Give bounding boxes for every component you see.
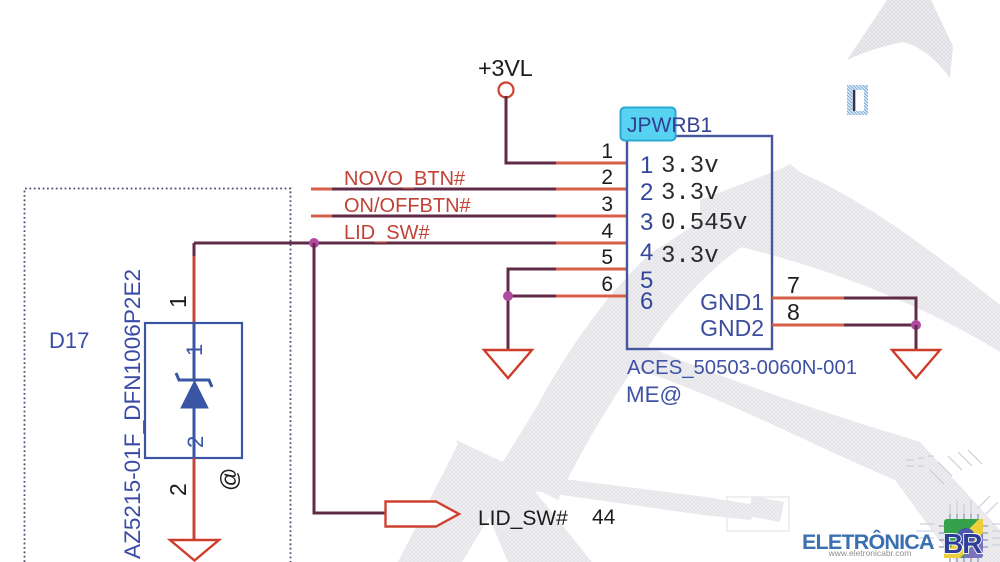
watermark bottom shallow band (508, 472, 756, 520)
wire pin8 to junction (844, 324, 916, 327)
wire pin6 to junction (508, 295, 556, 298)
svg-text:7: 7 (787, 272, 800, 298)
svg-text:3.3v: 3.3v (661, 243, 719, 270)
wire pin5 to junction (508, 269, 556, 296)
svg-text:8: 8 (787, 299, 800, 325)
junction node GND (911, 320, 921, 330)
zener anode triangle (181, 381, 208, 408)
svg-text:GND1: GND1 (700, 289, 764, 315)
wire pin6 (556, 295, 627, 298)
svg-text:3.3v: 3.3v (661, 180, 719, 207)
wire pin7 to corner (844, 298, 916, 325)
circuit trace doodles around chip (906, 450, 1000, 562)
logo chip icon (939, 514, 988, 562)
power symbol +3VL circle (499, 83, 514, 98)
wire junction to ground (507, 296, 510, 350)
watermark big arrow left leg (498, 164, 838, 500)
junction node LID_SW# (309, 238, 319, 248)
svg-text:D17: D17 (49, 328, 89, 353)
svg-text:0.545v: 0.545v (661, 210, 747, 237)
off-page connector LID_SW# arrow (386, 502, 460, 527)
wire diode bottom red (193, 458, 196, 540)
watermark top-right arch arrow (847, 0, 953, 78)
svg-text:44: 44 (592, 506, 616, 529)
wire ON/OFFBTN# (311, 215, 556, 218)
wire pin7 stub (772, 297, 845, 300)
watermark bottom V band right (456, 440, 592, 562)
svg-text:GND2: GND2 (700, 315, 764, 341)
wire +3VL vertical to pin1 (506, 96, 557, 163)
svg-text:JPWRB1: JPWRB1 (627, 114, 712, 137)
svg-text:3.3v: 3.3v (661, 153, 719, 180)
svg-text:4: 4 (601, 220, 613, 243)
svg-text:3: 3 (601, 193, 613, 216)
svg-text:ME@: ME@ (626, 382, 682, 407)
wire ON/OFFBTN# left stub (311, 215, 332, 218)
diode internal wire top (193, 323, 196, 380)
wire NOVO_BTN# left stub (311, 188, 332, 191)
watermark small patch near logo (748, 496, 784, 522)
svg-text:1: 1 (640, 152, 653, 179)
wire LID_SW# (194, 242, 556, 245)
svg-text:2: 2 (165, 483, 191, 496)
svg-text:6: 6 (640, 288, 653, 315)
dashed enclosure box D17 (25, 189, 291, 562)
svg-text:+3VL: +3VL (478, 55, 533, 81)
svg-text:2: 2 (183, 436, 208, 448)
svg-text:NOVO_BTN#: NOVO_BTN# (344, 168, 466, 190)
svg-text:2: 2 (640, 179, 653, 206)
svg-text:www.eletronicabr.com: www.eletronicabr.com (828, 548, 912, 558)
wire pin1 stub (556, 162, 627, 165)
svg-text:BR: BR (943, 528, 982, 559)
svg-text:3: 3 (640, 209, 653, 236)
svg-text:@: @ (216, 468, 242, 491)
diode internal wire bottom (193, 408, 196, 458)
svg-text:ACES_50503-0060N-001: ACES_50503-0060N-001 (627, 357, 857, 379)
diode D17 body box (145, 323, 242, 458)
ground symbol under pin6 (484, 350, 532, 378)
ground symbol right (892, 350, 940, 378)
watermark arch band right (700, 167, 1000, 352)
svg-text:1: 1 (182, 344, 207, 356)
svg-text:LID_SW#: LID_SW# (478, 507, 568, 530)
svg-text:2: 2 (601, 166, 613, 189)
svg-text:1: 1 (165, 295, 191, 308)
svg-text:4: 4 (640, 239, 653, 266)
svg-text:6: 6 (601, 273, 613, 296)
wire pin5 (556, 268, 627, 271)
wire junction to right ground (915, 325, 918, 350)
hatched glyph top right (847, 85, 868, 115)
wire pin8 stub (772, 324, 845, 327)
junction node pin5/pin6 (503, 291, 513, 301)
wire pin2 stub (556, 188, 627, 191)
zener cathode bar (176, 373, 212, 387)
svg-text:AZ5215-01F_DFN1006P2E2: AZ5215-01F_DFN1006P2E2 (120, 269, 145, 559)
svg-text:5: 5 (601, 246, 613, 269)
svg-text:1: 1 (601, 140, 613, 163)
wire pin3 stub (556, 215, 627, 218)
svg-text:ON/OFFBTN#: ON/OFFBTN# (344, 195, 472, 217)
wire NOVO_BTN# (311, 188, 556, 191)
wire LID_SW# branch down (314, 243, 385, 513)
connector box JPWRB1 (627, 136, 772, 349)
wire diode top purple (193, 243, 196, 258)
refdes highlight (621, 108, 676, 141)
watermark bottom V band left (398, 444, 513, 562)
svg-text:LID_SW#: LID_SW# (344, 222, 430, 244)
wire diode top red (193, 256, 196, 323)
ground symbol under diode (170, 540, 219, 561)
watermark faint rectangle (727, 497, 789, 531)
wire pin4 stub (556, 242, 627, 245)
watermark inner arch band (628, 342, 1000, 562)
